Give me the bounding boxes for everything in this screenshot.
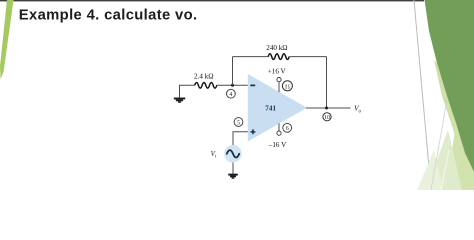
pin label 11 (282, 81, 292, 91)
node label 4 (227, 89, 236, 98)
wire: source to op-amp non-inverting input (233, 132, 248, 145)
node label 5 (234, 118, 243, 127)
wire: resistor R1 to op-amp inverting input (216, 84, 248, 86)
svg-text:4: 4 (229, 92, 232, 98)
voltage source Vi (224, 145, 242, 163)
wire: node 4 up to feedback (232, 57, 234, 86)
svg-text:11: 11 (284, 83, 290, 90)
resistor R1 2.4 kOhm (194, 73, 217, 88)
wire: pin 11 supply into op-amp top (278, 82, 280, 93)
svg-text:240 kΩ: 240 kΩ (266, 44, 287, 52)
wire: source to ground (232, 163, 234, 174)
junction node 4 dot (231, 84, 234, 87)
svg-text:5: 5 (237, 120, 240, 126)
op-amp inverting input marker - (250, 85, 255, 87)
ground (left) (174, 99, 185, 103)
svg-text:Example 4. calculate vo.: Example 4. calculate vo. (19, 8, 198, 24)
wire: op-amp output (306, 107, 351, 109)
wire: feedback top left segment (233, 56, 269, 58)
svg-text:+16 V: +16 V (268, 67, 287, 75)
junction dot output node (325, 107, 328, 110)
svg-text:741: 741 (265, 104, 276, 112)
pin label 10 (323, 113, 331, 121)
op-amp non-inverting input marker + (250, 129, 255, 134)
op-amp U1 741 (248, 74, 307, 142)
ground (below source) (228, 175, 238, 178)
svg-text:10: 10 (324, 115, 330, 121)
terminal circle pin 6 (277, 131, 281, 135)
svg-text:–16 V: –16 V (268, 141, 287, 149)
svg-text:2.4 kΩ: 2.4 kΩ (194, 73, 213, 81)
svg-text:6: 6 (286, 126, 289, 132)
wire: pin 6 supply from op-amp bottom (278, 123, 280, 131)
terminal circle pin 11 (277, 78, 281, 82)
wire: feedback right vertical down to output (326, 57, 328, 108)
wire: feedback top right segment (289, 56, 326, 58)
wire: ground to resistor R1 (180, 85, 195, 98)
resistor R2 240 kOhm (266, 44, 289, 60)
pin label 6 (283, 123, 292, 132)
